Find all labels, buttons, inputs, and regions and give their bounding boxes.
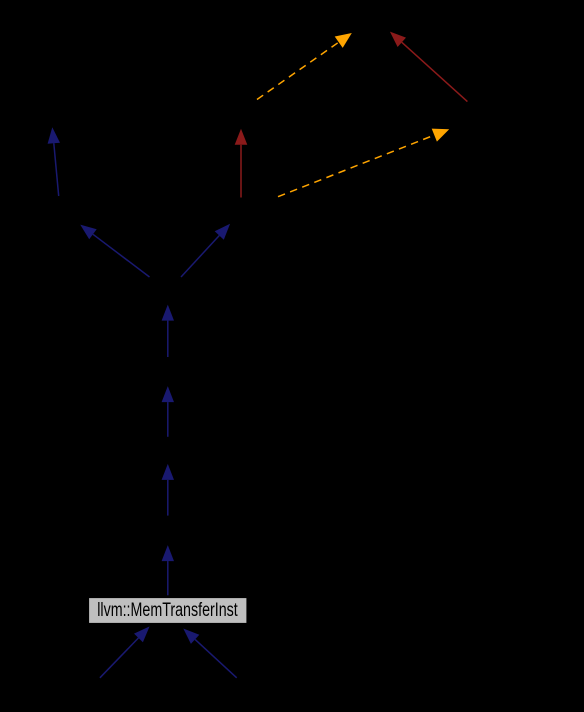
svg-text:llvm::MemTransferInst: llvm::MemTransferInst (97, 600, 238, 621)
